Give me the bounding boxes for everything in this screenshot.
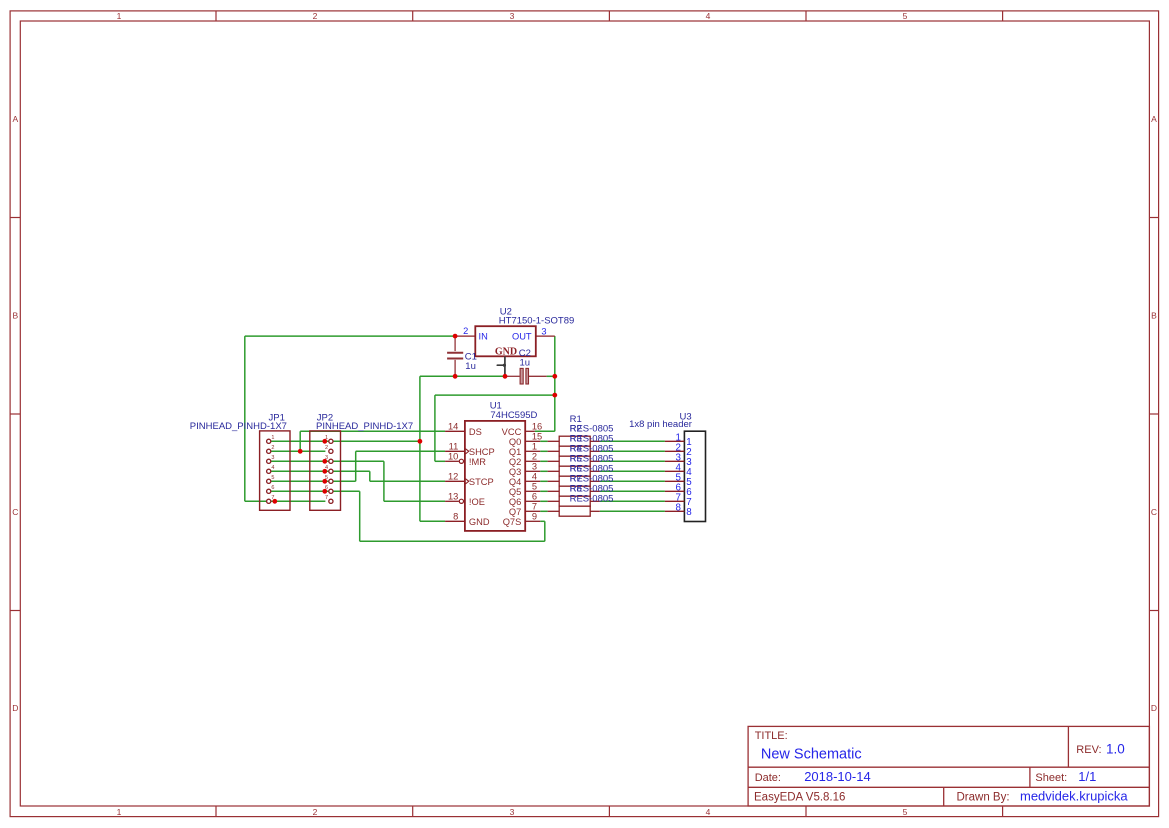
svg-text:A: A	[1151, 114, 1157, 124]
svg-text:EasyEDA V5.8.16: EasyEDA V5.8.16	[754, 792, 845, 804]
wire GND below capacitors	[420, 375, 505, 377]
svg-text:1u: 1u	[520, 358, 531, 369]
svg-text:!MR: !MR	[469, 457, 486, 467]
svg-text:5: 5	[903, 807, 908, 817]
header U3 1x8	[665, 431, 706, 521]
svg-text:Q7: Q7	[509, 507, 521, 517]
svg-text:D: D	[12, 703, 18, 713]
resistor R1	[548, 436, 600, 446]
capacitor C2	[505, 368, 547, 384]
wire U1 Q1 to R2	[540, 450, 547, 452]
svg-text:5: 5	[532, 482, 537, 492]
wire JP row2	[269, 450, 326, 452]
svg-text:RES-0805: RES-0805	[570, 493, 614, 504]
svg-text:IN: IN	[479, 331, 488, 341]
svg-text:2: 2	[313, 807, 318, 817]
svg-text:2: 2	[532, 452, 537, 462]
svg-text:C: C	[1151, 507, 1157, 517]
wire GND vertical	[419, 376, 421, 521]
svg-text:Q7S: Q7S	[503, 517, 522, 527]
svg-text:3: 3	[541, 326, 546, 336]
resistor R6	[548, 486, 600, 496]
wire U2 OUT vertical	[554, 336, 556, 431]
svg-text:TITLE:: TITLE:	[755, 730, 788, 742]
junction JP1 pin7	[272, 499, 277, 504]
svg-text:2: 2	[325, 445, 328, 451]
wire JP row1 GND	[269, 440, 420, 442]
svg-text:1: 1	[117, 11, 122, 21]
wire GND to U1 pin8	[420, 520, 445, 522]
svg-text:GND: GND	[495, 346, 517, 357]
svg-text:7: 7	[532, 502, 537, 512]
wire R3 to U3 pin 3	[600, 460, 665, 462]
wire VCC to U1 pin16	[535, 430, 555, 432]
wire U1 Q7 to R8	[540, 510, 547, 512]
junction GND row1	[418, 439, 423, 444]
wire VIN vertical left	[244, 336, 246, 501]
svg-text:6: 6	[271, 485, 274, 491]
svg-text:OUT: OUT	[512, 331, 532, 341]
wire SHCP vertical	[355, 451, 357, 481]
svg-text:PINHEAD_PINHD-1X7: PINHEAD_PINHD-1X7	[316, 421, 413, 432]
svg-text:REV:: REV:	[1076, 744, 1101, 756]
junction JP2 row1	[322, 439, 327, 444]
svg-text:New Schematic: New Schematic	[761, 747, 862, 763]
svg-text:4: 4	[271, 465, 274, 471]
resistor R8	[548, 506, 600, 516]
svg-text:5: 5	[903, 11, 908, 21]
svg-text:3: 3	[510, 11, 515, 21]
svg-text:Q4: Q4	[509, 477, 521, 487]
wire DS horizontal to U1 pin14	[300, 430, 445, 432]
wire Q7S vertical left	[359, 491, 361, 541]
wire JP row7	[245, 500, 326, 502]
connector JP2	[310, 431, 341, 510]
svg-text:6: 6	[532, 492, 537, 502]
wire VO horizontal to MR branch	[435, 394, 555, 396]
junction DS branch	[298, 449, 303, 454]
svg-text:GND: GND	[469, 517, 490, 527]
svg-text:4: 4	[532, 472, 537, 482]
wire to U1 pin10 MR	[435, 460, 445, 462]
svg-text:12: 12	[448, 472, 458, 482]
wire R1 to U3 pin 1	[600, 440, 665, 442]
wire Q7S vertical right	[544, 521, 546, 541]
svg-text:VCC: VCC	[502, 427, 522, 437]
junction C2 right	[552, 374, 557, 379]
wire R2 to U3 pin 2	[600, 450, 665, 452]
svg-text:3: 3	[510, 807, 515, 817]
junction JP2 row6	[322, 489, 327, 494]
wire STCP horizontal to U1 pin12	[370, 480, 445, 482]
svg-text:8: 8	[676, 502, 682, 513]
wire R4 to U3 pin 4	[600, 470, 665, 472]
title block	[748, 726, 1149, 806]
wire SHCP horizontal to U1 pin11	[356, 450, 445, 452]
svg-text:1.0: 1.0	[1106, 741, 1125, 756]
junction JP2 row4	[322, 469, 327, 474]
svg-text:10: 10	[448, 452, 458, 462]
svg-text:medvidek.krupicka: medvidek.krupicka	[1020, 789, 1128, 804]
svg-text:A: A	[12, 114, 18, 124]
wire STCP vertical	[369, 471, 371, 481]
IC U1 74HC595D	[445, 421, 540, 531]
svg-text:8: 8	[453, 512, 458, 522]
wire R5 to U3 pin 5	[600, 480, 665, 482]
svg-text:!OE: !OE	[469, 497, 485, 507]
svg-text:1/1: 1/1	[1078, 769, 1096, 784]
wire OE horizontal to U1 pin13	[384, 500, 445, 502]
wire U1 Q4 to R5	[540, 480, 547, 482]
svg-text:3: 3	[532, 462, 537, 472]
svg-text:14: 14	[448, 422, 458, 432]
U3 pin numbers inside	[686, 437, 692, 518]
wire JP row5	[269, 480, 356, 482]
resistor R7	[548, 496, 600, 506]
junction JP2 row5	[322, 479, 327, 484]
svg-text:Q3: Q3	[509, 467, 521, 477]
svg-text:2: 2	[271, 445, 274, 451]
resistor R2	[548, 446, 600, 456]
wire JP row6	[269, 490, 360, 492]
svg-text:9: 9	[532, 512, 537, 522]
svg-text:2: 2	[463, 326, 468, 336]
svg-text:STCP: STCP	[469, 477, 494, 487]
svg-text:PINHEAD_PINHD-1X7: PINHEAD_PINHD-1X7	[190, 421, 287, 432]
svg-text:1: 1	[532, 442, 537, 452]
U1 pin names	[469, 427, 522, 527]
svg-text:11: 11	[449, 442, 459, 452]
wire R7 to U3 pin 7	[600, 500, 665, 502]
capacitor C1	[447, 336, 463, 376]
svg-text:B: B	[12, 311, 18, 321]
wire JP row4	[269, 470, 370, 472]
wire U1 Q6 to R7	[540, 500, 547, 502]
junction VO branch	[552, 393, 557, 398]
U1 pin numbers	[448, 422, 542, 522]
svg-text:D: D	[1151, 703, 1157, 713]
svg-text:16: 16	[532, 422, 542, 432]
connector JP1	[260, 431, 290, 510]
svg-text:Date:: Date:	[755, 772, 781, 784]
svg-text:1u: 1u	[465, 361, 476, 372]
junction JP2 row3	[322, 459, 327, 464]
svg-text:HT7150-1-SOT89: HT7150-1-SOT89	[499, 316, 575, 327]
svg-text:Drawn By:: Drawn By:	[957, 792, 1010, 804]
svg-text:DS: DS	[469, 427, 482, 437]
junction GND flag	[503, 374, 508, 379]
resistor R5	[548, 476, 600, 486]
junction C1 bottom	[453, 374, 458, 379]
svg-text:5: 5	[271, 475, 274, 481]
svg-text:Q1: Q1	[509, 447, 521, 457]
wire VIN horizontal to U2 IN	[245, 335, 455, 337]
svg-text:B: B	[1151, 311, 1157, 321]
wire U1 Q2 to R3	[540, 460, 547, 462]
svg-text:Sheet:: Sheet:	[1035, 772, 1067, 784]
svg-text:2018-10-14: 2018-10-14	[804, 769, 871, 784]
svg-text:C: C	[12, 507, 18, 517]
svg-text:1: 1	[117, 807, 122, 817]
svg-text:Q0: Q0	[509, 437, 521, 447]
wire Q7S stub	[540, 520, 545, 522]
svg-text:Q6: Q6	[509, 497, 521, 507]
svg-text:13: 13	[448, 492, 458, 502]
wire OE vertical	[383, 461, 385, 501]
junction VIN at C1 top	[453, 334, 458, 339]
svg-text:15: 15	[532, 432, 542, 442]
svg-text:8: 8	[686, 507, 692, 518]
svg-text:Q5: Q5	[509, 487, 521, 497]
svg-text:Q2: Q2	[509, 457, 521, 467]
wire R8 to U3 pin 8	[600, 510, 665, 512]
resistor R3	[548, 456, 600, 466]
ground net flag GND	[495, 346, 517, 374]
regulator U2 HT7150-1-SOT89	[455, 326, 555, 356]
svg-text:74HC595D: 74HC595D	[490, 410, 537, 421]
wire U1 Q3 to R4	[540, 470, 547, 472]
svg-text:4: 4	[706, 807, 711, 817]
wire U1 Q5 to R6	[540, 490, 547, 492]
svg-text:7: 7	[325, 495, 328, 501]
wire JP row3	[269, 460, 384, 462]
wire C2 right stub	[547, 375, 555, 377]
wire branch vertical to MR	[434, 395, 436, 461]
svg-text:3: 3	[271, 455, 274, 461]
svg-text:SHCP: SHCP	[469, 447, 495, 457]
svg-text:2: 2	[313, 11, 318, 21]
wire U1 Q0 to R1	[540, 440, 547, 442]
wire Q7S bottom horizontal	[360, 540, 545, 542]
svg-text:1: 1	[271, 435, 274, 441]
resistor R4	[548, 466, 600, 476]
wire DS branch vertical	[299, 431, 301, 451]
svg-text:1x8 pin header: 1x8 pin header	[629, 419, 692, 430]
svg-text:4: 4	[706, 11, 711, 21]
wire R6 to U3 pin 6	[600, 490, 665, 492]
U3 pin numbers outside	[676, 432, 682, 513]
